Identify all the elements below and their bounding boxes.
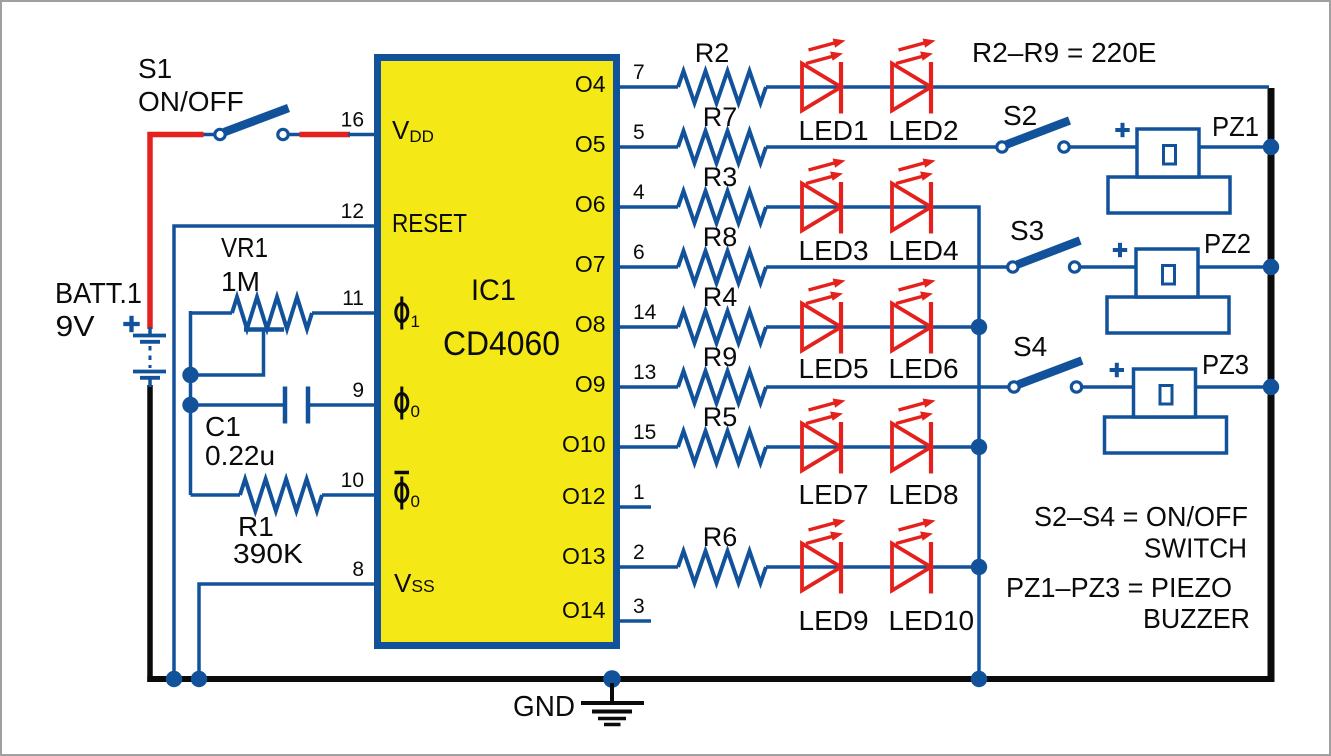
junction LED rail / ground bus <box>971 671 987 687</box>
wire R1 to pin 10 <box>322 493 377 497</box>
resistor R1 390K <box>240 479 322 511</box>
svg-text:SWITCH: SWITCH <box>1144 533 1247 564</box>
svg-text:3: 3 <box>633 595 645 618</box>
wire PZ2 to right rail <box>1196 265 1271 269</box>
capacitor C1 <box>285 387 308 424</box>
svg-text:RESET: RESET <box>392 208 467 238</box>
svg-text:O7: O7 <box>575 251 606 277</box>
svg-text:C1: C1 <box>205 411 241 442</box>
resistor R6 220E <box>678 551 766 583</box>
LED10 <box>892 519 936 594</box>
svg-text:0.22u: 0.22u <box>205 440 275 471</box>
svg-text:10: 10 <box>341 469 364 492</box>
junction LED8 return / rail <box>971 439 987 455</box>
wire O13 row to LED return rail <box>766 565 979 569</box>
svg-text:LED5: LED5 <box>799 353 869 384</box>
junction RESET rail / ground bus <box>166 671 182 687</box>
switch S2 <box>997 121 1070 153</box>
wire R1 left lead <box>191 493 241 497</box>
switch S3 <box>1008 241 1081 273</box>
svg-text:BUZZER: BUZZER <box>1143 603 1250 634</box>
svg-text:2: 2 <box>633 541 645 564</box>
svg-text:LED7: LED7 <box>799 479 869 510</box>
svg-text:7: 7 <box>633 61 645 84</box>
svg-text:CD4060: CD4060 <box>443 325 560 363</box>
wire O6 row and LED return rail <box>766 207 979 679</box>
svg-text:PZ1: PZ1 <box>1212 111 1259 142</box>
svg-text:S4: S4 <box>1013 331 1047 362</box>
wire O13 to R6 <box>620 565 678 569</box>
wire blue segment into VDD pin 16 <box>348 133 377 137</box>
svg-text:R6: R6 <box>703 522 738 552</box>
junction LED6 return / rail <box>971 319 987 335</box>
switch S4 <box>1009 361 1082 393</box>
svg-text:13: 13 <box>633 361 656 384</box>
svg-text:1: 1 <box>411 312 420 331</box>
wire VR1 to pin 11 <box>312 311 377 315</box>
wire O5 to R7 <box>620 145 678 149</box>
wire O10 row to LED return rail <box>766 445 979 449</box>
svg-text:O8: O8 <box>575 311 606 337</box>
svg-text:LED3: LED3 <box>799 235 869 266</box>
svg-text:O12: O12 <box>562 483 605 509</box>
resistor R5 220E <box>678 431 766 463</box>
svg-text:R7: R7 <box>703 102 738 132</box>
wire S1 right stub <box>287 133 302 137</box>
svg-text:LED2: LED2 <box>889 115 959 146</box>
wire O14 stub <box>620 619 651 623</box>
pin label phi1 <box>396 297 408 330</box>
resistor R7 220E <box>678 131 766 163</box>
IC U1: IC1 CD4060 body <box>378 58 617 646</box>
wire S4 to PZ3 <box>1081 385 1136 389</box>
junction ground bus / GND <box>603 670 621 688</box>
LED2 <box>892 39 936 114</box>
wire C1 left lead <box>191 403 284 407</box>
svg-text:R8: R8 <box>703 222 738 252</box>
svg-text:LED10: LED10 <box>889 605 975 636</box>
wire S1 left stub <box>203 133 216 137</box>
wire red segment to VDD <box>300 132 351 138</box>
LED1 <box>802 39 846 114</box>
svg-text:R2: R2 <box>695 38 730 68</box>
svg-text:0: 0 <box>411 402 420 421</box>
wire S2 to PZ1 <box>1068 145 1139 149</box>
resistor R9 220E <box>678 371 766 403</box>
svg-text:15: 15 <box>633 421 656 444</box>
LED7 <box>802 399 846 474</box>
PZ1 plus sign <box>1115 123 1129 137</box>
svg-text:S2: S2 <box>1003 100 1037 131</box>
PZ2 plus sign <box>1113 243 1127 257</box>
svg-text:PZ1–PZ3 = PIEZO: PZ1–PZ3 = PIEZO <box>1006 572 1232 603</box>
pin label phi0 <box>396 387 408 420</box>
resistor R3 220E <box>678 191 766 223</box>
junction PZ3 / right rail <box>1263 379 1279 395</box>
svg-text:O5: O5 <box>575 131 606 157</box>
wire O9 to S4 <box>766 385 1010 389</box>
svg-text:R5: R5 <box>703 402 738 432</box>
wire PZ3 to right rail <box>1194 385 1272 389</box>
wire O8 to R4 <box>620 325 678 329</box>
svg-text:5: 5 <box>633 121 645 144</box>
svg-text:O6: O6 <box>575 191 606 217</box>
wire O6 to R3 <box>620 205 678 209</box>
svg-text:6: 6 <box>633 241 645 264</box>
svg-text:4: 4 <box>633 181 645 204</box>
svg-text:ON/OFF: ON/OFF <box>138 86 244 117</box>
LED6 <box>892 279 936 354</box>
wire S3 to PZ2 <box>1079 265 1138 269</box>
svg-text:1M: 1M <box>221 266 260 297</box>
wire O4 to R2 <box>620 85 678 89</box>
wire VR1 left lead <box>191 311 233 315</box>
svg-text:11: 11 <box>342 287 364 310</box>
svg-text:R4: R4 <box>703 282 738 312</box>
svg-text:R2–R9 = 220E: R2–R9 = 220E <box>972 37 1156 68</box>
svg-text:9: 9 <box>352 379 364 402</box>
svg-text:1: 1 <box>633 481 645 504</box>
PZ3 plus sign <box>1110 363 1124 377</box>
svg-text:IC1: IC1 <box>471 274 516 307</box>
junction VR1 wiper / left rail <box>182 367 198 383</box>
ground <box>581 683 644 725</box>
wire O4 row to right rail <box>766 85 1269 89</box>
pin label phi0-bar <box>395 473 410 510</box>
resistor R4 220E <box>678 311 766 343</box>
svg-text:LED9: LED9 <box>799 605 869 636</box>
wire O7 to S3 <box>766 265 1009 269</box>
svg-text:LED8: LED8 <box>889 479 959 510</box>
battery plus sign <box>123 316 139 332</box>
svg-text:390K: 390K <box>233 538 303 569</box>
LED5 <box>802 279 846 354</box>
wire battery positive (red) <box>150 135 204 330</box>
svg-text:O13: O13 <box>562 543 605 569</box>
junction VSS rail / ground bus <box>191 671 207 687</box>
svg-text:LED6: LED6 <box>889 353 959 384</box>
svg-text:R9: R9 <box>703 342 738 372</box>
svg-text:S2–S4 = ON/OFF: S2–S4 = ON/OFF <box>1034 501 1248 532</box>
wire right ground rail (black) <box>1268 88 1275 682</box>
junction PZ2 / right rail <box>1263 259 1279 275</box>
wire O12 stub <box>620 505 651 509</box>
svg-text:S3: S3 <box>1010 215 1044 246</box>
wire VSS pin8 to ground bus <box>199 584 377 679</box>
wire battery negative (black) <box>147 385 153 682</box>
svg-text:O4: O4 <box>575 71 606 97</box>
svg-text:0: 0 <box>411 492 420 511</box>
wire O5 to S2 <box>766 145 998 149</box>
junction C1 / left rail <box>182 397 198 413</box>
piezo buzzer PZ1 <box>1108 129 1230 213</box>
svg-text:9V: 9V <box>56 311 96 343</box>
svg-text:VR1: VR1 <box>221 232 268 263</box>
svg-text:O9: O9 <box>575 371 606 397</box>
LED9 <box>802 519 846 594</box>
svg-text:PZ3: PZ3 <box>1202 349 1249 380</box>
piezo buzzer PZ2 <box>1107 249 1229 333</box>
resistor R2 220E <box>678 71 766 103</box>
svg-text:O14: O14 <box>562 597 606 623</box>
wire O7 to R8 <box>620 265 678 269</box>
resistor R8 220E <box>678 251 766 283</box>
junction LED10 return / rail <box>971 559 987 575</box>
svg-text:8: 8 <box>352 558 364 581</box>
svg-text:O10: O10 <box>562 431 605 457</box>
switch S1 <box>215 108 289 140</box>
wire O8 row to LED return rail <box>766 325 979 329</box>
junction PZ1 / right rail <box>1263 139 1279 155</box>
wire C1 to pin 9 <box>310 403 377 407</box>
svg-text:PZ2: PZ2 <box>1204 228 1251 259</box>
LED3 <box>802 159 846 234</box>
LED8 <box>892 399 936 474</box>
svg-text:R3: R3 <box>703 162 738 192</box>
svg-text:S1: S1 <box>138 53 172 84</box>
wire RC net left rail <box>189 311 193 495</box>
svg-text:LED4: LED4 <box>889 235 959 266</box>
svg-text:BATT.1: BATT.1 <box>55 278 142 310</box>
wire PZ1 to right rail <box>1197 145 1271 149</box>
resistor VR1 1M <box>232 297 312 329</box>
battery B1 symbol <box>133 327 166 387</box>
wire ground bus bottom (black) <box>147 676 1274 682</box>
LED4 <box>892 159 936 234</box>
wire O9 to R9 <box>620 385 678 389</box>
svg-text:GND: GND <box>513 691 575 723</box>
svg-text:LED1: LED1 <box>799 115 869 146</box>
svg-text:14: 14 <box>633 301 657 324</box>
piezo buzzer PZ3 <box>1105 369 1227 453</box>
wire RESET pin12 to ground bus <box>174 226 377 679</box>
svg-text:16: 16 <box>341 109 364 132</box>
VR1 wiper <box>191 330 285 376</box>
wire O10 to R5 <box>620 445 678 449</box>
svg-text:12: 12 <box>341 200 364 223</box>
